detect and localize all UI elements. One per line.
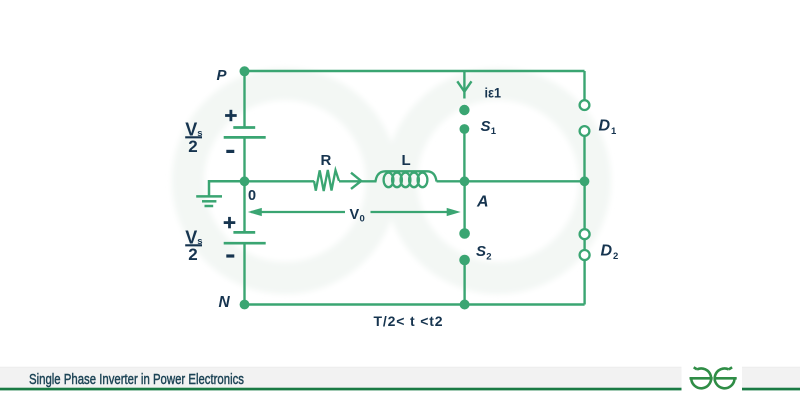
wire: D1 to right junction [583,136,585,181]
wire: node 0 to battery B2 [243,181,245,232]
wire: node A to right junction [465,180,585,182]
wire: S2 to bottom rail [463,260,465,305]
footer rule [0,388,800,391]
node right junction [580,176,590,186]
battery B1 (Vs/2) [224,128,266,138]
svg-text:D: D [599,117,611,134]
wire: battery B1 to node 0 [243,137,245,181]
wire: resistor to inductor [339,180,377,182]
value label Vs/2 (B2) [185,227,202,263]
ground [196,181,244,206]
node 0 [240,176,250,186]
svg-text:1: 1 [611,126,617,137]
label B2 minus [226,254,234,257]
wire: node 0 to resistor [245,180,315,182]
wire: node A to switch S2 [463,181,465,233]
wire: battery B2 to node N [243,243,245,304]
node A [460,176,470,186]
inductor L [376,171,437,187]
junction: bottom rail and S2 [460,300,470,310]
arrow iε1 (branch current) [457,71,471,99]
label V0 [350,207,365,225]
svg-text:S: S [481,118,491,135]
voltage arrow V0 [248,208,461,216]
diode D2 [580,229,590,260]
resistor R [314,170,339,191]
svg-text:R: R [321,152,332,169]
watermark [188,84,595,278]
diode D1 [580,71,590,136]
label S1 [481,118,497,137]
svg-text:iε1: iε1 [485,86,502,101]
svg-text:2: 2 [486,251,491,262]
logo GeeksforGeeks [690,367,737,388]
wire: P down to battery B1 [243,71,245,128]
switch S1 [459,105,469,134]
svg-text:2: 2 [188,137,197,156]
svg-text:L: L [402,152,411,169]
label B1 plus [225,110,237,121]
wire: inductor to node A [437,180,465,182]
svg-text:D: D [601,242,613,259]
svg-text:1: 1 [491,126,497,137]
svg-text:P: P [217,67,228,84]
label S2 [476,243,492,262]
svg-text:A: A [476,193,489,210]
label B1 minus [226,150,234,153]
label D1 [599,117,618,137]
svg-text:Single Phase Inverter in Power: Single Phase Inverter in Power Electroni… [29,371,244,388]
wire: bottom rail N to right corner [245,303,585,305]
svg-text:S: S [476,243,486,260]
node P [240,66,250,76]
wire: S1 to node A [463,129,465,181]
battery B2 (Vs/2) [224,232,266,243]
label B2 plus [224,217,236,228]
svg-text:2: 2 [613,251,618,262]
svg-text:2: 2 [188,245,197,264]
switch S2 [459,228,470,265]
wire: top rail P to right corner [245,70,585,72]
arrow: current direction [351,173,361,189]
footer band top edge [0,367,800,368]
svg-text:T/2< t <t2: T/2< t <t2 [374,313,443,329]
svg-text:V: V [350,207,360,223]
svg-text:0: 0 [248,188,256,204]
node N [240,300,250,310]
svg-text:N: N [219,294,231,311]
svg-text:0: 0 [360,214,365,225]
footer band [0,367,800,387]
value label Vs/2 (B1) [185,119,202,156]
wire: right junction down through D2 to bottom corner [583,181,585,304]
label D2 [601,242,619,261]
